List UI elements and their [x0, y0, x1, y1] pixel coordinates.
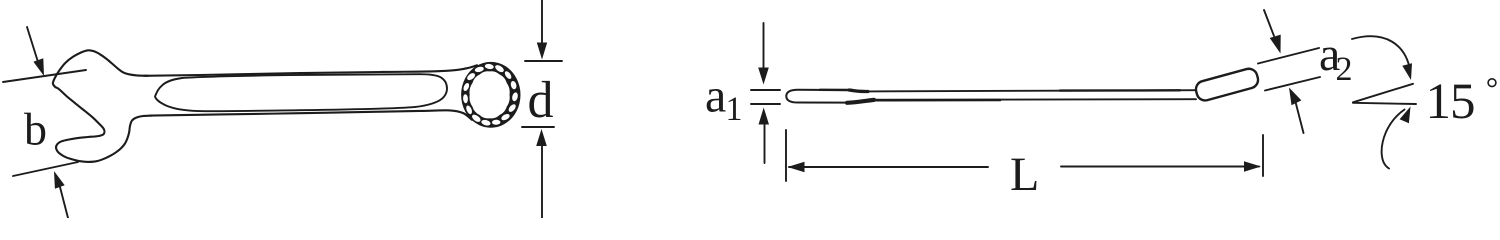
open-end top overdraw ink [820, 89, 852, 92]
a1 lower arrow line [764, 124, 766, 163]
a2 upper arrow line [1264, 10, 1274, 36]
L right arrowhead [1244, 161, 1261, 172]
d upper arrowhead [537, 43, 547, 60]
a1 upper tick [751, 89, 780, 91]
svg-text:1: 1 [726, 91, 743, 128]
serration white slots [462, 63, 518, 126]
a2 lower extension line [1265, 77, 1320, 91]
dimension d upper arrow line [541, 0, 543, 44]
svg-text:2: 2 [1336, 51, 1353, 88]
dimension b lower arrow line [60, 187, 68, 218]
shank top overdraw ink [1060, 89, 1180, 92]
handle inner panel outline [155, 74, 447, 111]
side view: shank bottom edge [871, 98, 1196, 101]
angle upper arc arrowhead [1402, 63, 1412, 80]
a1 upper arrow line [763, 23, 765, 68]
side view: step top [849, 90, 868, 92]
dimension d lower arrow line [541, 145, 543, 218]
side view: open-end head outline (left thick part) [786, 90, 854, 103]
b upper arrowhead [33, 58, 44, 76]
a2 upper arrowhead [1270, 35, 1281, 54]
angle upper curved arrow [1352, 36, 1411, 72]
svg-text:a: a [705, 70, 726, 123]
handle top edge [144, 65, 477, 76]
svg-text:d: d [528, 72, 554, 129]
a2 lower arrowhead [1289, 88, 1301, 106]
a1 lower tick [751, 103, 780, 105]
svg-text:b: b [24, 104, 47, 155]
dimension b upper arrow line [27, 27, 38, 62]
side view: shank top edge [866, 90, 1196, 91]
shank bottom overdraw ink [876, 99, 1000, 102]
degree circle [1488, 79, 1496, 87]
L left extension tick [785, 130, 787, 181]
side view: ring head (tilted) [1194, 67, 1260, 103]
ring serration band (outer ellipse minus scalloped hole) [461, 62, 520, 128]
L dimension line right segment [1061, 166, 1259, 168]
angle 15 upper line [1353, 84, 1413, 103]
dimension b extension line upper [3, 70, 86, 82]
a1 upper arrowhead [758, 68, 769, 85]
svg-text:1: 1 [1426, 74, 1452, 130]
dimension d lower tick [522, 126, 554, 128]
a2 lower arrow line [1295, 100, 1304, 133]
a2 upper extension line [1258, 48, 1319, 64]
a1 lower arrowhead [759, 108, 770, 125]
dimension b lower extension line [13, 162, 78, 176]
wrench jaw and head outline [53, 50, 152, 162]
b lower arrowhead [54, 171, 65, 189]
angle lower arc arrowhead [1400, 107, 1411, 124]
svg-text:L: L [1010, 148, 1039, 201]
d lower arrowhead [536, 129, 547, 146]
angle lower curved arrow [1382, 110, 1405, 169]
side view: step bottom [847, 100, 874, 103]
L dimension line left segment [789, 166, 988, 168]
angle 15 lower line [1353, 103, 1416, 104]
handle bottom edge [150, 110, 472, 119]
L left arrowhead [788, 162, 805, 172]
L right extension tick [1262, 135, 1264, 176]
dimension d upper tick [525, 60, 562, 62]
svg-text:5: 5 [1450, 74, 1476, 130]
